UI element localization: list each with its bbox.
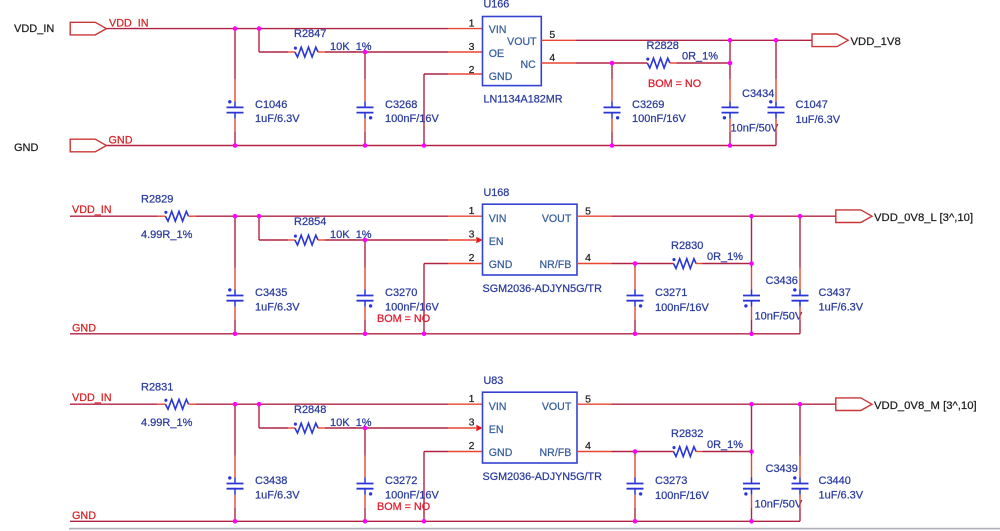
svg-text:LN1134A182MR: LN1134A182MR — [484, 94, 563, 106]
wire R2829 to VIN — [189, 215, 197, 217]
wire R2854 to pin 3 EN — [318, 239, 325, 241]
port symbol GND input — [70, 139, 106, 152]
svg-text:C3438: C3438 — [255, 475, 287, 487]
capacitor C3437 — [799, 216, 801, 267]
port symbol VDD_0V8_M output — [836, 398, 872, 411]
wire VDD_IN to resistor R2829 — [70, 215, 157, 217]
svg-text:VOUT: VOUT — [542, 401, 572, 413]
svg-text:10nF/50V: 10nF/50V — [755, 498, 803, 510]
capacitor C3269 — [611, 63, 613, 79]
svg-text:VDD_0V8_L [3^,10]: VDD_0V8_L [3^,10] — [874, 212, 973, 224]
junction at (751.5,404.2) — [749, 402, 754, 407]
capacitor C3268 — [364, 52, 366, 79]
pin 5 stub U166 / wire VDD_1V8 — [541, 39, 576, 41]
junction at (235,145.5) — [233, 143, 238, 148]
junction at (612,145.5) — [610, 143, 615, 148]
svg-text:1uF/6.3V: 1uF/6.3V — [255, 489, 300, 501]
wire branch to resistor R2848 — [258, 404, 260, 428]
svg-text:3: 3 — [469, 417, 475, 429]
svg-text:C3272: C3272 — [385, 475, 417, 487]
svg-text:0R_1%: 0R_1% — [707, 251, 743, 263]
junction at (259,404.2) — [257, 402, 262, 407]
resistor R2854 — [294, 235, 318, 245]
svg-text:C1047: C1047 — [796, 99, 828, 111]
svg-text:U166: U166 — [484, 0, 510, 11]
wire GND pin 2 U166 — [448, 73, 483, 75]
junction at (235,28.6) — [233, 26, 238, 31]
wire branch from node to R2847 — [258, 29, 260, 52]
svg-text:10nF/50V: 10nF/50V — [755, 310, 803, 322]
svg-text:C3270: C3270 — [385, 287, 417, 299]
svg-text:NR/FB: NR/FB — [540, 259, 572, 271]
svg-text:4: 4 — [585, 440, 591, 452]
svg-text:C3439: C3439 — [766, 463, 798, 475]
junction at (776,40.3) — [774, 38, 779, 43]
junction at (365,521.3) — [363, 519, 368, 524]
junction at (235,521.3) — [233, 519, 238, 524]
junction at (365,240.0) — [363, 238, 368, 243]
junction at (730,40.3) — [728, 38, 733, 43]
svg-text:VOUT: VOUT — [542, 213, 572, 225]
svg-text:VDD_IN: VDD_IN — [72, 204, 112, 216]
svg-text:R2848: R2848 — [294, 404, 326, 416]
wire GND rail row 2 — [70, 333, 800, 335]
port symbol VDD_IN input — [70, 22, 106, 35]
svg-text:BOM = NO: BOM = NO — [377, 313, 430, 325]
svg-text:2: 2 — [469, 64, 475, 76]
wire GND pin 2 U168 — [448, 263, 483, 265]
wire VDD_IN to resistor R2831 — [70, 403, 157, 405]
svg-text:R2829: R2829 — [141, 194, 173, 206]
pin 1 stub U166 — [448, 28, 483, 30]
pin 1 stub U83 — [448, 403, 483, 405]
junction at (751.5,263.5) — [749, 261, 754, 266]
svg-text:1: 1 — [469, 205, 475, 217]
junction at (365,333.8) — [363, 332, 368, 337]
svg-text:C3434: C3434 — [742, 88, 774, 100]
pin 5 stub U83 / wire VDD_0V8_M — [577, 403, 612, 405]
svg-text:VIN: VIN — [489, 401, 507, 413]
junction at (235,333.8) — [233, 332, 238, 337]
capacitor C3440 — [799, 404, 801, 455]
pin 4 stub U168 / wire NR/FB net — [577, 263, 612, 265]
svg-text:1uF/6.3V: 1uF/6.3V — [255, 301, 300, 313]
svg-text:100nF/16V: 100nF/16V — [655, 490, 709, 502]
junction at (751.5,333.8) — [749, 332, 754, 337]
svg-text:1: 1 — [469, 18, 475, 30]
junction at (424,333.8) — [422, 332, 427, 337]
svg-text:C3273: C3273 — [655, 475, 687, 487]
junction at (635,263.5) — [633, 261, 638, 266]
junction at (424,145.5) — [422, 143, 427, 148]
junction at (635,333.8) — [633, 332, 638, 337]
capacitor C1047 — [775, 40, 777, 79]
svg-text:GND: GND — [489, 71, 513, 83]
svg-text:C1046: C1046 — [255, 99, 287, 111]
junction at (751.5,216.2) — [749, 214, 754, 219]
junction at (635,521.3) — [633, 519, 638, 524]
junction at (424,521.3) — [422, 519, 427, 524]
capacitor C3438 — [234, 404, 236, 455]
svg-text:C3436: C3436 — [766, 275, 798, 287]
wire R2828 to VDD_1V8 net — [670, 62, 677, 64]
resistor R2831 — [164, 399, 188, 409]
junction at (259,28.6) — [257, 26, 262, 31]
junction at (800,404.2) — [798, 402, 803, 407]
svg-text:NC: NC — [520, 59, 536, 71]
resistor R2829 — [164, 211, 188, 221]
svg-text:U168: U168 — [484, 187, 510, 199]
capacitor C3434 — [729, 40, 731, 79]
svg-text:1uF/6.3V: 1uF/6.3V — [819, 301, 864, 313]
svg-text:R2831: R2831 — [141, 382, 173, 394]
pin 3 stub U83 with arrow — [448, 427, 476, 429]
wire VDD_IN main row 1 — [106, 28, 448, 30]
svg-text:GND: GND — [489, 259, 513, 271]
junction at (751.5,451.5) — [749, 449, 754, 454]
junction at (365,145.5) — [363, 143, 368, 148]
wire R2830 to VDD_0V8_L net — [696, 263, 702, 265]
junction at (800,216.2) — [798, 214, 803, 219]
junction at (730,145.5) — [728, 143, 733, 148]
svg-text:GND: GND — [14, 142, 39, 154]
pin 1 stub U168 — [448, 215, 483, 217]
junction at (235,404.2) — [233, 402, 238, 407]
svg-text:10nF/50V: 10nF/50V — [731, 123, 779, 135]
resistor R2847 — [294, 47, 318, 57]
wire R2831 to VIN — [189, 403, 197, 405]
svg-text:GND: GND — [72, 510, 96, 522]
svg-text:VDD_IN: VDD_IN — [14, 23, 54, 35]
svg-text:R2828: R2828 — [647, 40, 679, 52]
svg-text:VIN: VIN — [489, 213, 507, 225]
wire GND pin 2 U83 — [448, 451, 483, 453]
svg-text:VOUT: VOUT — [507, 36, 537, 48]
svg-text:4: 4 — [549, 52, 555, 64]
IC U168 body — [483, 204, 578, 275]
pin 5 stub U168 / wire VDD_0V8_L — [577, 215, 612, 217]
svg-text:OE: OE — [489, 48, 504, 60]
capacitor C3271 — [634, 264, 636, 268]
svg-text:0R_1%: 0R_1% — [682, 51, 718, 63]
svg-text:3: 3 — [469, 229, 475, 241]
svg-text:C3440: C3440 — [819, 475, 851, 487]
wire R2847 to pin 3 OE — [318, 51, 325, 53]
pin 3 stub U166 — [448, 51, 483, 53]
capacitor C3436 — [751, 216, 753, 267]
svg-text:BOM = NO: BOM = NO — [377, 501, 430, 513]
svg-text:C3271: C3271 — [655, 287, 687, 299]
svg-text:NR/FB: NR/FB — [540, 447, 572, 459]
svg-text:VIN: VIN — [489, 24, 507, 36]
svg-text:0R_1%: 0R_1% — [707, 439, 743, 451]
svg-text:100nF/16V: 100nF/16V — [655, 302, 709, 314]
junction at (365,428.0) — [363, 426, 368, 431]
capacitor C3439 — [751, 404, 753, 455]
svg-text:3: 3 — [469, 41, 475, 53]
svg-text:100nF/16V: 100nF/16V — [632, 113, 686, 125]
svg-text:1uF/6.3V: 1uF/6.3V — [796, 114, 841, 126]
capacitor C3435 — [234, 216, 236, 267]
wire GND rail row 3 — [70, 520, 800, 522]
capacitor C3273 — [634, 452, 636, 456]
resistor R2848 — [294, 423, 318, 433]
wire R2832 to VDD_0V8_M net — [696, 451, 702, 453]
pin 4 stub U166 / wire NC net — [541, 62, 576, 64]
pin 3 stub U168 with arrow — [448, 239, 476, 241]
junction at (259,216.2) — [257, 214, 262, 219]
svg-text:C3437: C3437 — [819, 287, 851, 299]
svg-text:C3269: C3269 — [632, 99, 664, 111]
wire R2848 to pin 3 EN — [318, 427, 325, 429]
svg-text:100nF/16V: 100nF/16V — [385, 489, 439, 501]
resistor R2832 — [672, 446, 696, 456]
svg-text:BOM = NO: BOM = NO — [648, 78, 701, 90]
svg-text:2: 2 — [469, 252, 475, 264]
capacitor C1046 — [234, 29, 236, 80]
svg-text:U83: U83 — [484, 375, 504, 387]
port symbol VDD_0V8_L output — [836, 210, 872, 223]
svg-text:R2847: R2847 — [294, 28, 326, 40]
svg-text:VDD_0V8_M [3^,10]: VDD_0V8_M [3^,10] — [874, 400, 977, 412]
junction at (612,63.0) — [610, 61, 615, 66]
wire GND rail row 1 — [106, 145, 776, 147]
capacitor C3272 — [364, 428, 366, 456]
resistor R2830 — [672, 258, 696, 268]
junction at (730,63.0) — [728, 61, 733, 66]
svg-text:EN: EN — [489, 424, 504, 436]
svg-text:R2832: R2832 — [671, 428, 703, 440]
svg-text:100nF/16V: 100nF/16V — [385, 113, 439, 125]
svg-text:SGM2036-ADJYN5G/TR: SGM2036-ADJYN5G/TR — [483, 471, 603, 483]
svg-text:GND: GND — [489, 447, 513, 459]
junction at (751.5,521.3) — [749, 519, 754, 524]
resistor R2828 — [646, 58, 670, 68]
svg-text:4.99R_1%: 4.99R_1% — [141, 417, 193, 429]
svg-text:VDD_IN: VDD_IN — [109, 17, 149, 29]
svg-text:4.99R_1%: 4.99R_1% — [141, 229, 193, 241]
junction at (635,451.5) — [633, 449, 638, 454]
sheet border line (bottom) — [69, 528, 1000, 530]
svg-text:C3435: C3435 — [255, 287, 287, 299]
wire branch to resistor R2854 — [258, 216, 260, 240]
svg-text:VDD_1V8: VDD_1V8 — [851, 36, 901, 48]
svg-text:4: 4 — [585, 252, 591, 264]
svg-text:1: 1 — [469, 393, 475, 405]
svg-text:1uF/6.3V: 1uF/6.3V — [255, 113, 300, 125]
svg-text:C3268: C3268 — [385, 99, 417, 111]
svg-text:R2830: R2830 — [671, 240, 703, 252]
svg-text:2: 2 — [469, 440, 475, 452]
svg-text:SGM2036-ADJYN5G/TR: SGM2036-ADJYN5G/TR — [483, 283, 603, 295]
port symbol VDD_1V8 output — [812, 34, 848, 47]
IC U83 body — [483, 392, 578, 463]
junction at (365,52.0) — [363, 50, 368, 55]
svg-text:VDD_IN: VDD_IN — [72, 392, 112, 404]
svg-text:GND: GND — [72, 323, 96, 335]
pin 4 stub U83 / wire NR/FB net — [577, 451, 612, 453]
junction at (235,216.2) — [233, 214, 238, 219]
capacitor C3270 — [364, 240, 366, 268]
IC U166 body (LDO LN1134A182MR) — [483, 17, 542, 86]
svg-text:R2854: R2854 — [294, 216, 326, 228]
svg-text:1uF/6.3V: 1uF/6.3V — [819, 489, 864, 501]
svg-text:GND: GND — [109, 135, 133, 147]
svg-text:100nF/16V: 100nF/16V — [385, 301, 439, 313]
svg-text:EN: EN — [489, 236, 504, 248]
svg-text:5: 5 — [549, 29, 555, 41]
